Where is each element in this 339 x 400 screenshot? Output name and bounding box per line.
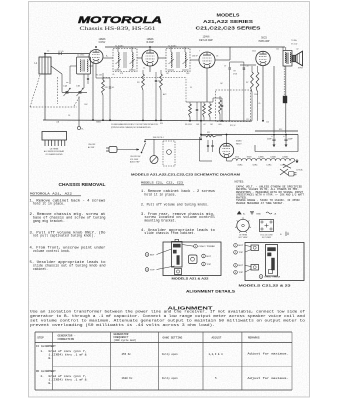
tube V2 12BA6 IF amp xyxy=(142,50,158,66)
svg-text:35W4: 35W4 xyxy=(247,157,252,159)
svg-text:BOT: BOT xyxy=(207,256,212,258)
wire top B+ rail xyxy=(105,46,285,48)
svg-text:CONNECTION: CONNECTION xyxy=(58,338,75,341)
svg-text:L2 OSC: L2 OSC xyxy=(77,55,85,57)
IF can A xyxy=(172,239,183,267)
IF can 1 trimmer arrows xyxy=(116,59,136,64)
B- return stub xyxy=(296,159,299,163)
svg-text:set volume control to maximum.: set volume control to maximum. Attenuate… xyxy=(30,319,305,323)
filter enclosure xyxy=(255,135,298,152)
IF amp screen wire xyxy=(149,47,151,50)
svg-text:Grid of conv (pin 7,: Grid of conv (pin 7, xyxy=(49,374,87,378)
det cap C7 xyxy=(196,102,198,121)
svg-text:B-: B- xyxy=(49,382,53,385)
wire IF amp cathode drop xyxy=(149,66,151,72)
wire IF2 to det grid xyxy=(190,59,199,61)
svg-text:ALIGNMENT DETAILS: ALIGNMENT DETAILS xyxy=(186,290,235,294)
wire speaker lead dashed xyxy=(283,66,285,96)
terminal strip TS1 xyxy=(42,132,67,147)
svg-text:REMARKS: REMARKS xyxy=(248,337,260,340)
svg-text:12BA6: 12BA6 xyxy=(270,156,275,159)
svg-text:2. Pull off volume and tuning: 2. Pull off volume and tuning knobs. xyxy=(141,203,209,207)
junction dots power rail xyxy=(273,134,275,136)
svg-text:Adjust for maximum.: Adjust for maximum. xyxy=(248,376,289,380)
svg-text:AC SW: AC SW xyxy=(88,146,94,149)
alignment detail box A21-A22 xyxy=(163,242,221,276)
svg-text:C8: C8 xyxy=(216,56,218,58)
svg-text:R9: R9 xyxy=(234,71,236,73)
antenna coupling cap C2 xyxy=(59,52,61,55)
svg-text:B-: B- xyxy=(49,357,53,360)
wire conv plate to IF1 xyxy=(103,57,113,59)
svg-text:BOT: BOT xyxy=(239,265,244,267)
svg-text:12BA6: 12BA6 xyxy=(99,38,107,41)
svg-text:C14: C14 xyxy=(266,122,269,124)
AVC resistor R2 xyxy=(160,70,163,121)
svg-text:DET-AF AMP: DET-AF AMP xyxy=(199,39,213,42)
svg-text:RECT: RECT xyxy=(236,144,242,146)
svg-text:45VAC: 45VAC xyxy=(237,164,243,167)
svg-text:BOT VIEW: BOT VIEW xyxy=(239,237,248,239)
svg-text:.02: .02 xyxy=(203,124,206,126)
svg-text:R1 22K: R1 22K xyxy=(96,75,103,77)
svg-text:R3: R3 xyxy=(137,82,139,84)
wire det cathode drop xyxy=(206,68,208,102)
svg-text:CONV: CONV xyxy=(99,42,106,44)
wire rect cathode to heater string xyxy=(226,158,228,161)
tone cap C10 xyxy=(243,62,245,121)
svg-text:T1 455KC: T1 455KC xyxy=(115,45,124,47)
svg-text:R11 1K: R11 1K xyxy=(230,125,236,127)
alignment detail box C21-23 xyxy=(245,243,304,281)
svg-text:TOP: TOP xyxy=(239,272,244,274)
symbol legend B- xyxy=(237,211,245,215)
svg-text:C10: C10 xyxy=(246,66,249,68)
svg-text:MOTOROLA A21, A22: MOTOROLA A21, A22 xyxy=(30,193,72,196)
wire output cathode drop xyxy=(262,66,264,121)
svg-text:R11: R11 xyxy=(207,132,210,134)
surge resistor R11 xyxy=(201,135,222,137)
label 2 TOP A xyxy=(202,262,212,266)
svg-text:50C5: 50C5 xyxy=(261,38,267,40)
wire rect plate xyxy=(226,135,228,144)
svg-text:Use an isolation transformer b: Use an isolation transformer between the… xyxy=(30,309,305,313)
AVC bus dashed xyxy=(103,77,186,79)
label 5 OSC TRIM B xyxy=(259,275,280,279)
svg-text:(400 cycle mod): (400 cycle mod) xyxy=(114,339,137,342)
svg-text:Fully open: Fully open xyxy=(162,352,178,356)
svg-text:1ST: 1ST xyxy=(166,73,169,75)
svg-text:C9: C9 xyxy=(224,66,226,68)
svg-text:Chassis HS-839, HS-561: Chassis HS-839, HS-561 xyxy=(80,26,156,32)
transistor socket diagram xyxy=(260,220,274,232)
svg-text:GANG: GANG xyxy=(96,121,102,124)
svg-text:GANG SETTING: GANG SETTING xyxy=(163,337,183,340)
grid leak resistor R6 xyxy=(209,102,212,121)
svg-text:CHASSIS REMOVAL: CHASSIS REMOVAL xyxy=(59,182,106,187)
wire antenna to converter grid xyxy=(45,53,89,55)
svg-text:ON-OFF: ON-OFF xyxy=(88,144,96,146)
variable capacitor C1A xyxy=(64,88,71,96)
svg-text:mounting bracket.: mounting bracket. xyxy=(144,218,176,222)
cathode resistor R3 xyxy=(142,70,145,121)
detector wire xyxy=(186,101,213,103)
svg-text:hold it in place.: hold it in place. xyxy=(33,202,65,206)
label 3 BOT B xyxy=(234,264,244,268)
leader line osc trim A xyxy=(182,245,194,247)
switch SW1 xyxy=(141,139,146,153)
svg-text:GND: GND xyxy=(256,213,261,215)
svg-text:BOT: BOT xyxy=(239,245,244,247)
tuning gang wire xyxy=(62,91,87,93)
label 4 TOP A left xyxy=(145,268,155,272)
tube V3 12AV6 det-AF xyxy=(199,52,215,68)
svg-text:C12: C12 xyxy=(246,119,249,121)
wire gang left to antenna xyxy=(61,74,63,92)
label 2 TOP B xyxy=(234,251,244,255)
table row separator xyxy=(53,366,292,368)
wire AF to output grid xyxy=(240,64,256,66)
screen bypass C5 xyxy=(155,72,157,121)
IF transformer T2 xyxy=(166,47,190,72)
svg-text:1,2,3 & 4: 1,2,3 & 4 xyxy=(209,353,223,356)
svg-text:OSC TRIM: OSC TRIM xyxy=(264,276,280,278)
svg-text:TOP: TOP xyxy=(207,264,212,266)
wire detector drop xyxy=(200,102,202,135)
svg-text:ALL VIEWS FROM REAR: ALL VIEWS FROM REAR xyxy=(44,150,65,153)
svg-text:MODELS: MODELS xyxy=(217,13,240,18)
svg-text:cabinet.: cabinet. xyxy=(33,267,48,271)
svg-text:Adjust for maximum.: Adjust for maximum. xyxy=(248,351,289,355)
svg-text:C6: C6 xyxy=(68,115,70,117)
svg-text:1620 Kc: 1620 Kc xyxy=(122,377,133,380)
svg-text:not pull captivated tuning kno: not pull captivated tuning knob). xyxy=(33,234,95,238)
svg-text:PEAKED MEASURED AT TUBE SOCKET: PEAKED MEASURED AT TUBE SOCKET. xyxy=(236,202,284,205)
svg-text:32VAC: 32VAC xyxy=(252,164,258,167)
wire gang to bus xyxy=(78,97,80,121)
svg-text:SEE NOTE 4: SEE NOTE 4 xyxy=(153,137,164,139)
svg-text:TOP: TOP xyxy=(239,252,244,254)
wire switch feed xyxy=(145,138,201,140)
connector square B top xyxy=(251,245,259,251)
svg-text:50C5: 50C5 xyxy=(235,157,239,159)
B- terminal post xyxy=(77,120,80,130)
filter capacitor C14 xyxy=(285,135,288,147)
oscillator coil L2 xyxy=(77,57,91,74)
svg-text:MODELS A21 & A22: MODELS A21 & A22 xyxy=(172,276,209,280)
svg-text:B+: B+ xyxy=(106,56,108,58)
det diode load wires xyxy=(186,78,215,103)
label 1 BOT B xyxy=(234,244,244,248)
svg-text:R9: R9 xyxy=(243,69,245,71)
svg-text:(PRINTED WIRE CHASSIS) NO SIG: (PRINTED WIRE CHASSIS) NO SIGNAL APPLIED… xyxy=(111,126,151,129)
line bypass caps xyxy=(199,137,213,161)
svg-text:6: 6 xyxy=(147,51,148,53)
wire AF plate top xyxy=(230,61,244,63)
wire IF amp plate to IF2 xyxy=(158,57,166,59)
label 3 BOT A left xyxy=(145,253,155,257)
svg-text:hold it in place.: hold it in place. xyxy=(144,192,176,196)
svg-text:+: + xyxy=(280,233,282,237)
filter capacitor C13 xyxy=(273,135,276,147)
polarity mark xyxy=(280,232,288,237)
table outer border xyxy=(35,332,292,390)
svg-text:TOP: TOP xyxy=(150,269,155,271)
G adjustment box A xyxy=(189,255,198,264)
wire bottom B- bus xyxy=(43,120,252,121)
grid resistor R1 xyxy=(102,73,105,120)
svg-text:12BA6: 12BA6 xyxy=(147,38,155,41)
IF transformer T1 xyxy=(113,47,137,72)
svg-text:2.: 2. xyxy=(41,375,44,378)
heater string coil xyxy=(232,158,295,160)
table row 2 xyxy=(41,374,289,385)
svg-text:VOL 500K: VOL 500K xyxy=(130,159,139,161)
svg-text:NOTES:: NOTES: xyxy=(235,180,245,183)
svg-text:7: 7 xyxy=(90,51,91,53)
volume control R10 xyxy=(150,139,158,163)
tube V4 50C5 output xyxy=(256,51,270,65)
wire arrow to switch xyxy=(117,149,139,151)
wire IF1 to IF amp grid xyxy=(137,57,142,59)
socket dashed detail xyxy=(163,141,175,166)
wire output screen drop xyxy=(273,66,275,133)
wire conv cathode drop xyxy=(92,63,94,120)
wire gang to osc coil xyxy=(83,74,85,88)
osc grid cap C4 xyxy=(87,74,89,84)
svg-text:IF AMP: IF AMP xyxy=(146,41,154,44)
wire B- bus right segment xyxy=(255,130,298,132)
svg-text:slide chassis from cabinet.: slide chassis from cabinet. xyxy=(144,231,195,235)
svg-text:osc: osc xyxy=(66,82,69,84)
svg-text:BOT: BOT xyxy=(150,254,155,256)
label 4 TOP B xyxy=(234,271,244,275)
bypass capacitor C3 xyxy=(96,64,111,121)
svg-text:455 Kc: 455 Kc xyxy=(122,353,132,356)
svg-text:prevent overloading (50 milliw: prevent overloading (50 milliwatts is .4… xyxy=(30,323,215,327)
svg-text:STEP: STEP xyxy=(37,337,44,340)
table header underline xyxy=(35,342,292,344)
detector dashed board outline xyxy=(216,90,251,122)
svg-text:IF ALIGNMENT: IF ALIGNMENT xyxy=(36,345,56,348)
svg-text:C21,C22,C23 SERIES: C21,C22,C23 SERIES xyxy=(196,26,261,31)
svg-text:C5: C5 xyxy=(143,68,145,70)
svg-text:.05: .05 xyxy=(258,103,260,105)
svg-text:generator to B- through a .1 m: generator to B- through a .1 mf capacito… xyxy=(30,314,305,318)
svg-text:12BA6: 12BA6 xyxy=(282,156,287,159)
svg-text:D1: D1 xyxy=(190,87,192,89)
svg-text:T2 455KC: T2 455KC xyxy=(168,45,177,47)
cathode resistor R8 xyxy=(256,66,259,121)
svg-text:Grid of conv (pin 7,: Grid of conv (pin 7, xyxy=(49,349,87,353)
svg-text:1.(IN34) thru .1 mf &: 1.(IN34) thru .1 mf & xyxy=(49,353,88,357)
wire left drop from loop xyxy=(44,54,46,121)
svg-text:A21,A22 SERIES: A21,A22 SERIES xyxy=(203,19,253,24)
IF can B xyxy=(266,245,278,277)
junction dots bus xyxy=(92,119,94,121)
switch resistor inside board xyxy=(219,96,222,121)
svg-text:.05: .05 xyxy=(112,87,115,89)
svg-text:12AV6: 12AV6 xyxy=(258,156,263,159)
output transformer T3 xyxy=(283,47,292,66)
svg-text:OSC TRIM: OSC TRIM xyxy=(199,246,215,248)
svg-text:C1A: C1A xyxy=(63,85,68,88)
svg-text:gang mtg bracket.: gang mtg bracket. xyxy=(33,219,65,223)
power cord xyxy=(280,161,295,175)
AC plug xyxy=(289,172,297,177)
svg-text:117V AC: 117V AC xyxy=(296,169,304,172)
symbol legend +B xyxy=(266,212,277,215)
svg-text:MODELS A21,A22,C21,C22,C23 SCH: MODELS A21,A22,C21,C22,C23 SCHEMATIC DIA… xyxy=(131,173,241,177)
svg-text:CE TERM: CE TERM xyxy=(50,148,59,150)
svg-text:OF CHASSIS SHOWN: OF CHASSIS SHOWN xyxy=(46,153,64,156)
svg-text:50C5: 50C5 xyxy=(252,51,256,53)
IF can 2 trimmer arrows xyxy=(169,59,189,64)
svg-text:12AV6: 12AV6 xyxy=(203,36,210,39)
svg-text:R8 470K: R8 470K xyxy=(185,124,193,126)
svg-text:.05: .05 xyxy=(112,74,114,76)
connector square B bottom xyxy=(251,265,259,271)
svg-text:ON-OFF SW: ON-OFF SW xyxy=(130,156,141,158)
speaker SP1 xyxy=(292,51,303,66)
svg-text:C2: C2 xyxy=(47,51,49,53)
leader lines B xyxy=(245,245,252,272)
svg-text:Fully open: Fully open xyxy=(162,376,178,380)
svg-text:R12: R12 xyxy=(279,129,282,131)
wire B+ feed vertical xyxy=(285,66,287,133)
svg-text:MODELS C21,22 & 23: MODELS C21,22 & 23 xyxy=(239,283,292,287)
svg-text:35W4: 35W4 xyxy=(236,141,242,143)
wire B+ filter rail xyxy=(201,134,298,136)
svg-text:7: 7 xyxy=(199,51,200,53)
AVC resistor R5 xyxy=(203,102,206,121)
leader lines A left xyxy=(157,249,175,270)
svg-text:MODELS C21, C22, C23: MODELS C21, C22, C23 xyxy=(141,182,183,185)
svg-text:BOT VIEW: BOT VIEW xyxy=(262,237,271,239)
speaker plug P2 xyxy=(283,96,287,103)
variable capacitor C1B xyxy=(77,88,84,96)
svg-text:1.: 1. xyxy=(41,350,44,353)
tube V1 12BA6 converter xyxy=(89,50,103,64)
coupling cap C8 xyxy=(215,98,223,121)
grid resistor R7 xyxy=(251,66,254,121)
label 1 BOT A xyxy=(202,254,212,258)
loop antenna L1 xyxy=(39,54,51,75)
label 5 OSC TRIM A xyxy=(194,244,215,248)
svg-text:1.(IN34) thru .1 mf &: 1.(IN34) thru .1 mf & xyxy=(49,378,88,382)
svg-text:MOTOROLA: MOTOROLA xyxy=(78,14,162,25)
svg-text:12VAC: 12VAC xyxy=(266,164,272,167)
svg-text:TC-8A: TC-8A xyxy=(291,39,297,42)
tube socket diagram bottom view xyxy=(235,217,251,233)
svg-text:C1B: C1B xyxy=(76,86,81,88)
svg-text:VOLTAGES MEASURED FROM B- TO S: VOLTAGES MEASURED FROM B- TO SOCKET TERM… xyxy=(111,123,158,126)
svg-text:AUDIO TAP: AUDIO TAP xyxy=(130,161,140,164)
svg-text:RF ALIGNMENT: RF ALIGNMENT xyxy=(36,370,56,373)
table row 1 xyxy=(41,349,289,360)
volume det resistor R4 xyxy=(189,102,192,121)
svg-text:SW: SW xyxy=(160,123,163,125)
table column lines xyxy=(53,332,242,390)
AC interlock plug xyxy=(106,147,117,153)
loop panel dashed outline xyxy=(30,75,80,107)
svg-text:volume control knob.: volume control knob. xyxy=(33,249,71,253)
wire det plate coupling xyxy=(215,59,230,61)
svg-text:B-: B- xyxy=(82,129,84,131)
svg-text:SPKR: SPKR xyxy=(298,68,304,70)
symbol legend GND xyxy=(250,212,261,216)
tube V5 35W4 rectifier xyxy=(219,143,233,157)
svg-text:C11: C11 xyxy=(276,49,279,51)
svg-text:PWR AMP: PWR AMP xyxy=(259,40,270,43)
table headers xyxy=(37,333,260,342)
svg-text:B-: B- xyxy=(243,213,245,215)
svg-text:.02: .02 xyxy=(296,49,299,51)
trimmer square A xyxy=(175,269,182,275)
svg-text:R7: R7 xyxy=(246,82,248,84)
svg-text:.005: .005 xyxy=(218,124,222,126)
svg-text:ADJUST: ADJUST xyxy=(212,337,222,340)
svg-text:2ND IF: 2ND IF xyxy=(192,56,199,58)
conv osc feedback wires xyxy=(70,66,93,84)
svg-text:VC 102: VC 102 xyxy=(291,44,297,46)
coupling cap C9 xyxy=(229,62,231,121)
